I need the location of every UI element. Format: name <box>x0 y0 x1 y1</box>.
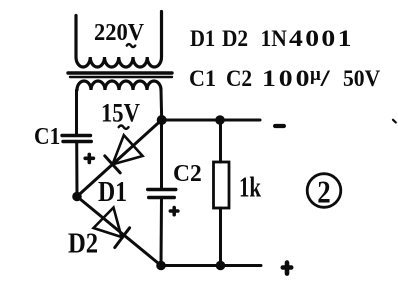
polarity + of C2 <box>170 208 178 215</box>
svg-text:4001: 4001 <box>289 25 354 52</box>
svg-text:50V: 50V <box>343 65 381 91</box>
transformer T1 primary winding <box>76 12 162 68</box>
wire top rail <box>162 119 261 122</box>
capacitor C1 <box>62 134 91 137</box>
svg-text:15V: 15V <box>101 99 140 128</box>
node A junction <box>72 192 82 202</box>
node B (top left junction) <box>157 115 167 125</box>
svg-text:220V: 220V <box>94 19 144 46</box>
svg-text:C1: C1 <box>189 65 216 91</box>
plus output terminal <box>283 263 291 274</box>
svg-text:μ: μ <box>310 64 321 85</box>
svg-text:C1: C1 <box>34 122 60 150</box>
transformer T1 secondary winding <box>77 81 161 90</box>
wire D1 branch diagonal <box>77 120 162 197</box>
diode D2 <box>115 228 130 248</box>
node E (resistor bottom) <box>216 261 226 271</box>
wire secondary right leg down to node B <box>160 90 164 120</box>
minus output terminal <box>275 124 284 128</box>
resistor R1 <box>214 162 230 208</box>
svg-text:D1: D1 <box>190 25 215 52</box>
svg-text:2: 2 <box>317 175 330 210</box>
svg-text:100: 100 <box>262 65 312 92</box>
wire C1 to node A <box>75 142 78 197</box>
svg-text:D2: D2 <box>222 25 248 51</box>
figure number 2 <box>307 174 341 208</box>
svg-text:1k: 1k <box>239 171 261 203</box>
svg-text:1N: 1N <box>261 25 287 51</box>
wire resistor bottom lead <box>219 208 222 266</box>
svg-text:C2: C2 <box>173 161 202 187</box>
wire C2 lower lead <box>160 198 164 266</box>
wire D2 branch diagonal <box>77 197 161 266</box>
svg-text:D1: D1 <box>98 176 127 207</box>
diode D1 <box>105 156 120 173</box>
wire resistor top lead <box>219 120 222 162</box>
wire secondary left leg down to C1 <box>75 90 78 135</box>
scan artifact tick at right edge <box>393 120 396 123</box>
AC tilde under 15V <box>119 126 129 129</box>
svg-text:D2: D2 <box>68 228 98 259</box>
transformer T1 core <box>68 71 172 74</box>
wire bottom rail <box>161 264 261 267</box>
capacitor C2 <box>148 188 176 191</box>
node D (bottom left junction) <box>156 261 166 271</box>
svg-text:C2: C2 <box>226 65 252 91</box>
AC tilde under 220V <box>127 44 135 47</box>
polarity + of C1 <box>85 154 93 162</box>
node C (resistor top) <box>215 115 225 125</box>
wire C2 upper lead <box>160 120 163 190</box>
svg-text:/: / <box>319 66 331 92</box>
